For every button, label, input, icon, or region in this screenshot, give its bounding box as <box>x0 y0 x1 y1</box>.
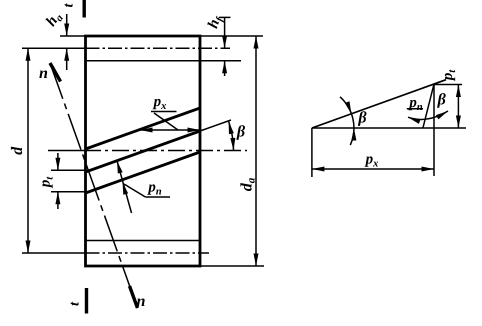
dimension h_a <box>66 14 68 36</box>
p_x label shelf <box>151 111 177 113</box>
label p_x right figure <box>365 156 379 166</box>
n-n thick end top <box>50 63 61 82</box>
dimension h_f <box>224 17 226 48</box>
angle beta arc left figure <box>229 122 234 151</box>
label n bottom <box>137 298 145 306</box>
pitch line bottom extension <box>22 252 86 254</box>
pitch line top extension <box>22 47 86 49</box>
bottom tip line extension <box>200 265 264 267</box>
tip line extension left <box>60 35 86 37</box>
hypotenuse <box>312 80 446 128</box>
pitch line bottom centerline <box>86 252 210 254</box>
thread line T2 <box>86 131 201 172</box>
n-n thick end bottom <box>130 286 138 308</box>
label beta apex <box>437 93 446 108</box>
pitch line top centerline <box>86 47 231 49</box>
label d <box>11 147 22 155</box>
label t top <box>65 3 73 7</box>
label h_f <box>207 16 224 29</box>
p_n label shelf <box>145 196 170 198</box>
dimension d <box>27 48 29 253</box>
dimension p_x right figure <box>311 128 313 177</box>
label d_a <box>240 178 254 191</box>
root line bottom <box>86 240 201 242</box>
dimension p_x left figure <box>140 129 200 131</box>
tip line extension right <box>200 35 263 37</box>
p_x leader <box>154 113 178 130</box>
slant p_n line <box>423 84 434 128</box>
p_n leader <box>124 184 145 197</box>
label p_x left figure <box>153 99 167 109</box>
dimension p_n tandem arrows <box>117 161 132 213</box>
thread line T3 <box>86 152 201 193</box>
gear blank rectangle <box>86 36 201 266</box>
label p_t right figure <box>445 70 455 82</box>
label beta left figure <box>236 125 245 140</box>
label p_n right figure <box>408 100 422 110</box>
base line <box>312 127 466 129</box>
label p_n left figure <box>147 184 161 194</box>
dimension d_a <box>255 36 257 266</box>
label p_t left <box>42 177 52 189</box>
label t bottom <box>71 302 79 306</box>
section mark t top <box>82 0 85 18</box>
angle beta arc at apex <box>408 111 448 119</box>
thread line T1 <box>86 108 201 149</box>
root line top <box>86 60 242 62</box>
vertical side <box>433 84 435 176</box>
thread line T2 thin extension <box>200 120 231 131</box>
label beta left vertex <box>358 111 367 126</box>
label n top <box>39 70 47 78</box>
label h_a <box>45 15 63 27</box>
p_n shelf right figure <box>407 108 423 110</box>
axis centerline <box>84 150 247 152</box>
section mark t bottom <box>85 288 88 314</box>
axis centerline start dash <box>48 150 84 152</box>
section line n-n <box>50 63 138 308</box>
dimension p_t left <box>51 169 86 171</box>
dimension p_t right figure <box>434 84 462 86</box>
angle beta arc at left vertex <box>340 97 354 145</box>
